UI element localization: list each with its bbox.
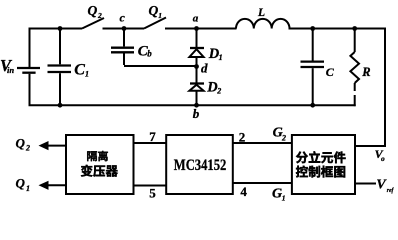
svg-text:R: R <box>361 65 370 79</box>
svg-text:in: in <box>7 65 14 75</box>
wire top rail left segment <box>29 28 83 30</box>
node a <box>193 13 199 31</box>
svg-text:c: c <box>120 11 126 25</box>
svg-text:a: a <box>193 13 199 25</box>
battery Vin <box>17 68 40 73</box>
capacitor C1 <box>48 66 72 73</box>
svg-text:b: b <box>147 48 152 58</box>
junction dot C bottom <box>310 103 315 108</box>
wire C1 bottom lead <box>59 73 61 105</box>
wire switch Q1 to node a <box>165 28 237 30</box>
svg-text:MC34152: MC34152 <box>174 157 227 174</box>
svg-text:1: 1 <box>26 184 30 193</box>
svg-text:o: o <box>381 154 385 163</box>
svg-text:Q: Q <box>16 135 26 150</box>
junction dot C top <box>310 26 315 31</box>
svg-text:2: 2 <box>216 87 221 96</box>
capacitor Cb <box>111 48 134 53</box>
wire left vertical bottom <box>29 74 31 105</box>
svg-text:1: 1 <box>158 11 162 20</box>
switch Q1 <box>144 18 166 29</box>
wire C bottom lead <box>312 68 314 105</box>
text 分立元件 <box>296 151 346 163</box>
diode D2 <box>189 84 204 91</box>
wire Vref <box>355 183 376 185</box>
wire C top lead <box>312 29 314 61</box>
svg-text:ref: ref <box>387 188 394 194</box>
wire pin 2 to G2 <box>233 142 292 144</box>
node c <box>120 11 127 31</box>
svg-text:b: b <box>193 106 200 121</box>
svg-text:Q: Q <box>149 3 159 18</box>
svg-text:G: G <box>272 187 282 202</box>
svg-text:V: V <box>376 178 387 193</box>
wire C1 top lead <box>59 29 61 65</box>
svg-text:d: d <box>201 60 208 75</box>
wire Cb to node d <box>123 53 125 65</box>
wire right vertical feedback <box>384 28 386 147</box>
text 控制框图 <box>296 166 345 178</box>
svg-text:7: 7 <box>149 129 156 144</box>
svg-text:1: 1 <box>85 70 89 79</box>
wire pin 4 to G1 <box>233 182 292 184</box>
wire D2 to node b <box>196 91 198 105</box>
block discrete control box <box>292 135 355 194</box>
diode D1 <box>189 48 204 57</box>
node b <box>193 103 200 121</box>
wire D1 to node d <box>196 57 198 67</box>
wire inductor to top-right corner <box>289 28 386 30</box>
wire node d to D2 <box>196 67 198 84</box>
wire arrow Q2 <box>39 141 67 150</box>
svg-text:4: 4 <box>240 184 247 199</box>
text 变压器 <box>81 165 118 177</box>
svg-text:1: 1 <box>219 53 223 62</box>
wire arrow Q1 <box>39 181 67 190</box>
svg-text:C: C <box>74 62 85 79</box>
svg-text:5: 5 <box>149 185 156 200</box>
block MC34152 box <box>166 135 233 194</box>
wire switch Q2 to node c <box>103 28 145 30</box>
svg-text:2: 2 <box>239 129 246 144</box>
capacitor C <box>301 62 325 67</box>
block isolation transformer box <box>66 135 134 194</box>
svg-text:C: C <box>326 65 335 79</box>
junction dot C1 bottom <box>58 103 63 108</box>
node d <box>194 60 208 75</box>
wire bottom rail <box>29 104 356 106</box>
switch Q2 <box>82 18 104 29</box>
resistor R <box>350 52 359 83</box>
junction dot R top <box>352 26 357 31</box>
wire pin 7 <box>134 142 167 144</box>
svg-text:L: L <box>257 7 265 19</box>
wire left vertical top <box>29 28 31 68</box>
text 隔离 <box>87 151 108 161</box>
svg-text:Q: Q <box>16 176 26 191</box>
wire node a to D1 <box>196 29 198 49</box>
wire R top lead <box>354 29 356 53</box>
svg-text:1: 1 <box>282 193 286 202</box>
junction dot C1 top <box>58 26 63 31</box>
svg-text:2: 2 <box>25 144 30 153</box>
svg-text:2: 2 <box>97 11 102 20</box>
wire node c to Cb <box>123 29 125 47</box>
svg-text:Q: Q <box>88 3 98 18</box>
inductor L <box>236 19 290 29</box>
wire pin 5 <box>134 185 167 187</box>
wire R bottom lead <box>354 83 356 91</box>
svg-text:2: 2 <box>281 133 286 142</box>
